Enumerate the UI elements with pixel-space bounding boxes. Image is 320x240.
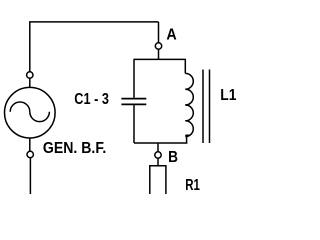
- wire tank right lower stub: [186, 135, 188, 143]
- inductor core line right: [209, 70, 211, 144]
- wire terminal to generator: [29, 78, 31, 87]
- wire generator to bottom terminal: [29, 138, 31, 151]
- svg-text:B: B: [168, 149, 178, 166]
- wire node B to resistor: [157, 158, 159, 166]
- wire left vertical top: [29, 22, 31, 72]
- wire node B stub upper: [157, 143, 159, 152]
- wire top horizontal: [29, 21, 158, 23]
- terminal top of GEN: [27, 72, 33, 78]
- node B terminal: [155, 152, 161, 158]
- inductor L1 coil: [185, 73, 193, 136]
- sine symbol inside generator: [10, 102, 49, 122]
- svg-text:A: A: [166, 26, 177, 43]
- svg-text:GEN. B.F.: GEN. B.F.: [43, 140, 106, 157]
- terminal bottom of GEN: [27, 151, 33, 157]
- inductor core line left: [202, 70, 204, 144]
- wire tank left upper: [133, 59, 135, 98]
- svg-text:L1: L1: [220, 87, 236, 104]
- inductor L1 cusp hooks: [185, 89, 190, 135]
- AC source generator GEN. B.F. circle: [5, 87, 56, 138]
- wire tank left lower: [133, 105, 135, 143]
- wire tank top horizontal: [134, 58, 185, 60]
- wire node A to tank top: [158, 49, 160, 59]
- wire tank right upper stub: [184, 59, 186, 74]
- wire bottom left to edge: [29, 158, 31, 194]
- node A terminal: [155, 43, 161, 49]
- resistor R1 body: [150, 166, 166, 195]
- svg-text:C1 - 3: C1 - 3: [74, 91, 109, 108]
- wire tank bottom horizontal: [134, 142, 187, 144]
- svg-text:R1: R1: [185, 177, 200, 194]
- capacitor C1-3 top plate: [121, 98, 146, 100]
- capacitor C1-3 bottom plate: [121, 103, 146, 105]
- wire top right vertical: [158, 22, 160, 43]
